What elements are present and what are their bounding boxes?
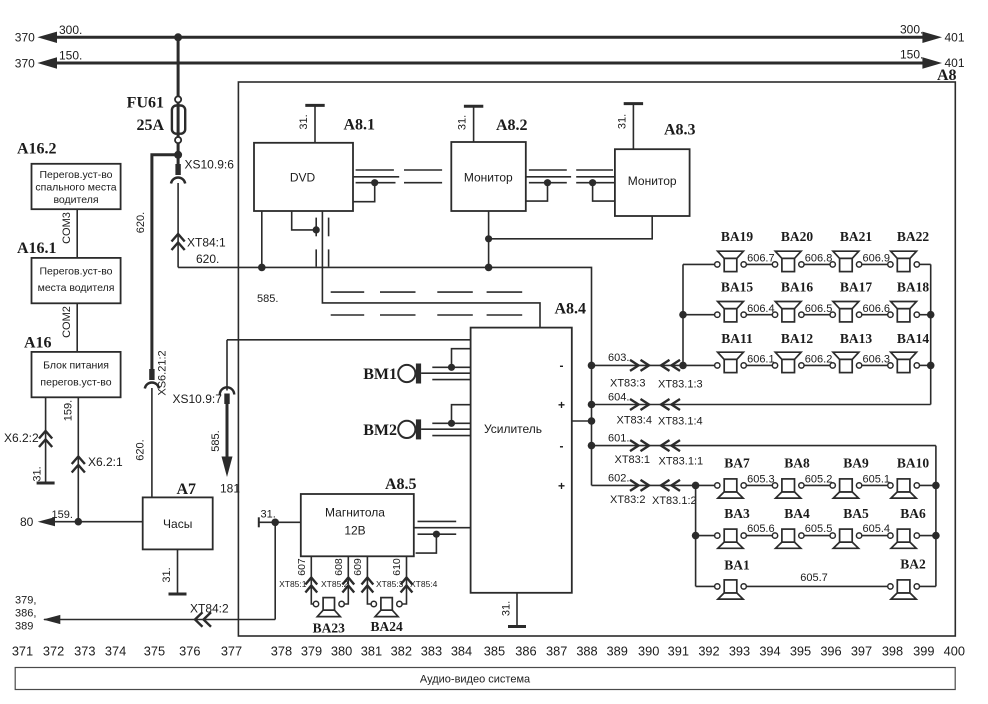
connector XT83:4 <box>630 399 639 410</box>
svg-text:376: 376 <box>179 644 200 659</box>
wire DVD bottom leg to 620 line <box>261 211 263 268</box>
wire 31 stub into A8.5 <box>259 517 301 527</box>
wire 610 (A8.5 to BA24 right) <box>402 556 406 604</box>
speaker BA12 <box>772 352 804 372</box>
speaker BA1 <box>715 580 747 599</box>
connector XT85:3 (double chevron up) <box>362 578 374 593</box>
svg-text:620.: 620. <box>135 439 147 460</box>
wire 585 arrow down to node 181 <box>222 403 233 477</box>
junction lower-right bus / row BA7 <box>932 482 940 490</box>
svg-text:BA23: BA23 <box>313 621 346 636</box>
svg-text:X6.2:2: X6.2:2 <box>4 431 39 445</box>
block A8.3 monitor <box>615 149 690 216</box>
svg-text:BA21: BA21 <box>840 229 873 244</box>
speaker BA23 <box>313 598 344 617</box>
svg-text:DVD: DVD <box>290 171 316 185</box>
junction bus/line 601 <box>588 442 596 450</box>
junction 620/DVD leg <box>258 264 266 272</box>
svg-text:31.: 31. <box>298 114 310 129</box>
svg-text:386: 386 <box>515 644 536 659</box>
wire A16 left leg to ground <box>45 397 47 483</box>
wire row BA19-BA22 <box>683 263 931 265</box>
wire upper-left speaker bus <box>682 264 684 365</box>
junction bus/amp stub <box>588 417 596 425</box>
ground (A7) <box>169 593 187 596</box>
svg-text:Аудио-видео система: Аудио-видео система <box>420 674 531 686</box>
svg-text:BA11: BA11 <box>721 331 753 346</box>
svg-text:31.: 31. <box>161 567 173 582</box>
svg-text:394: 394 <box>759 644 780 659</box>
coordinate scale 371-400 <box>12 644 965 659</box>
svg-text:620.: 620. <box>135 212 147 233</box>
speaker BA22 <box>888 251 920 271</box>
svg-text:XT85:4: XT85:4 <box>410 579 438 589</box>
svg-text:392: 392 <box>698 644 719 659</box>
wire 609 (A8.5 to BA24 left) <box>367 556 371 604</box>
wire upper-right speaker bus <box>930 264 932 404</box>
svg-text:A8.3: A8.3 <box>664 122 696 139</box>
wires BM2 to amplifier <box>421 405 471 436</box>
svg-text:391: 391 <box>668 644 689 659</box>
svg-text:BA5: BA5 <box>843 506 869 521</box>
pin polarity marks on amplifier <box>558 359 565 494</box>
connector XT83.1:3 <box>661 360 670 371</box>
svg-text:BA4: BA4 <box>784 506 810 521</box>
wire 159 to node 80 <box>38 517 143 526</box>
svg-text:606.7: 606.7 <box>747 253 775 265</box>
svg-text:Монитор: Монитор <box>628 174 677 188</box>
svg-text:31.: 31. <box>501 601 513 616</box>
svg-text:373: 373 <box>74 644 95 659</box>
shielded cable A8.2 to A8.3 (segment 1) <box>526 170 571 201</box>
svg-text:379,: 379, <box>15 595 36 607</box>
svg-text:COM3: COM3 <box>61 212 73 244</box>
junction bus/line 604 <box>588 401 596 409</box>
svg-text:31.: 31. <box>32 466 44 481</box>
svg-text:-: - <box>560 439 564 453</box>
svg-text:-: - <box>560 359 564 373</box>
svg-text:XT85:3: XT85:3 <box>376 579 404 589</box>
junction upper-right bus / row BA11 <box>927 362 935 370</box>
junction lower-left bus / row BA3 <box>692 532 700 540</box>
junction on bus 300 at fuse drop <box>174 33 182 41</box>
svg-text:BA18: BA18 <box>897 280 930 295</box>
svg-text:A8.4: A8.4 <box>555 301 587 318</box>
block A16 (power supply of intercom) <box>32 352 121 397</box>
svg-text:607: 607 <box>296 558 308 576</box>
connector XT85:4 (double chevron up) <box>401 578 413 593</box>
speaker BA16 <box>772 302 804 322</box>
junction 603 / upper-left speaker bus <box>679 362 687 370</box>
svg-text:389: 389 <box>15 621 33 633</box>
ground (above A8.2) with label 31. <box>457 106 484 142</box>
svg-text:181: 181 <box>220 482 240 496</box>
wire bus 300 (net 370-401 top) <box>37 32 942 43</box>
block A8.5 radio 12V <box>301 494 414 556</box>
speaker BA4 <box>772 529 804 548</box>
connector XT85:1 (double chevron up) <box>305 578 317 593</box>
svg-text:A16: A16 <box>24 335 52 352</box>
shielded cable DVD to A8.2 (segment 1) <box>353 170 399 202</box>
svg-text:XT85:2: XT85:2 <box>321 579 349 589</box>
shielded cable A8.5 to amplifier <box>414 521 471 553</box>
block A7 (clock) <box>143 497 213 549</box>
svg-text:378: 378 <box>271 644 292 659</box>
svg-text:605.3: 605.3 <box>747 474 775 486</box>
svg-text:620.: 620. <box>196 252 219 266</box>
svg-text:31.: 31. <box>261 509 276 521</box>
svg-text:+: + <box>558 479 565 493</box>
wire 608 (A8.5 to BA23 right) <box>345 556 349 604</box>
speaker BA2 <box>888 580 920 599</box>
speaker BA15 <box>715 302 747 322</box>
svg-text:XT83.1:2: XT83.1:2 <box>652 495 697 507</box>
block A16.1 (intercom driver place) <box>32 258 121 303</box>
svg-text:605.7: 605.7 <box>800 572 828 584</box>
speaker BA18 <box>888 302 920 322</box>
svg-text:XT83.1:1: XT83.1:1 <box>659 456 704 468</box>
connector XS10.9:7 (socket symbol) <box>220 340 234 404</box>
speaker BA24 <box>371 598 402 617</box>
svg-text:384: 384 <box>451 644 472 659</box>
svg-text:380: 380 <box>331 644 352 659</box>
svg-text:382: 382 <box>391 644 412 659</box>
speaker BA6 <box>888 529 920 548</box>
wire 585 line to amplifier <box>227 339 471 341</box>
svg-text:XT85:1: XT85:1 <box>279 579 307 589</box>
svg-text:381: 381 <box>361 644 382 659</box>
svg-text:BA16: BA16 <box>781 280 814 295</box>
svg-text:603.: 603. <box>608 352 629 364</box>
connector XT84:1 (double chevron up) <box>172 234 185 250</box>
svg-text:A16.1: A16.1 <box>17 240 57 257</box>
junction bus/line 603 <box>588 362 596 370</box>
svg-text:BM2: BM2 <box>363 422 397 439</box>
junction 620/A8.2 leg <box>485 264 493 272</box>
wire A16 right leg (net 159) <box>77 397 79 521</box>
svg-text:159.: 159. <box>52 509 73 521</box>
svg-text:XS10.9:6: XS10.9:6 <box>185 158 235 172</box>
svg-text:BA12: BA12 <box>781 331 814 346</box>
speaker BA21 <box>830 251 862 271</box>
wire A8.2 bottom leg <box>488 211 490 267</box>
svg-text:606.2: 606.2 <box>805 354 833 366</box>
junction upper-left bus / row BA15 <box>679 311 687 319</box>
wire COM2 link <box>76 303 78 352</box>
svg-text:BA10: BA10 <box>897 456 930 471</box>
wire row BA7-BA10 <box>715 484 936 486</box>
wire below fuse <box>177 143 180 165</box>
svg-text:605.5: 605.5 <box>805 523 833 535</box>
connector XT83.1:4 <box>661 399 670 410</box>
svg-text:BM1: BM1 <box>363 366 397 383</box>
svg-text:387: 387 <box>546 644 567 659</box>
svg-text:BA15: BA15 <box>721 280 754 295</box>
shielded pair DVD-amp (dashed rows) <box>331 292 523 315</box>
wire bus 150 (net 370-401 lower) <box>37 57 942 68</box>
connector XT83.1:1 <box>661 440 670 451</box>
wire output bus vertical <box>591 365 593 485</box>
speaker BA19 <box>715 251 747 271</box>
wire 620 branch to left (to clock A7) <box>152 155 178 370</box>
speaker BA17 <box>830 302 862 322</box>
junction upper-right bus / row BA15 <box>927 311 935 319</box>
junction 602 / lower-left speaker bus <box>692 482 700 490</box>
connector X6.2:1 (double chevron up) <box>72 457 85 473</box>
svg-text:XT83.1:4: XT83.1:4 <box>658 416 703 428</box>
speaker BA5 <box>830 529 862 548</box>
connector XT85:2 (double chevron up) <box>342 578 354 593</box>
wire XT84:2 run (nets 379,386,389) <box>43 522 275 624</box>
wire 607 (A8.5 to BA23 left) <box>311 556 313 604</box>
wire A8.2 to A8.3 bottom link <box>489 216 653 239</box>
wire 604 (upper group return) <box>592 404 931 406</box>
svg-text:Перегов.уст-во: Перегов.уст-во <box>40 169 113 181</box>
speaker BA20 <box>772 251 804 271</box>
node labels 379,386,389 <box>15 595 36 633</box>
wire A7 bottom leg <box>177 549 179 594</box>
svg-text:379: 379 <box>301 644 322 659</box>
svg-text:606.9: 606.9 <box>862 253 890 265</box>
wire DVD bottom shield loop <box>292 211 320 234</box>
connector XT83:3 <box>630 360 639 371</box>
svg-text:BA17: BA17 <box>840 280 873 295</box>
svg-text:31.: 31. <box>617 114 629 129</box>
svg-text:BA13: BA13 <box>840 331 873 346</box>
svg-text:604.: 604. <box>608 392 629 404</box>
svg-text:399: 399 <box>913 644 934 659</box>
svg-text:Блок питания: Блок питания <box>43 359 109 371</box>
connector XT84:2 (double chevron left) <box>195 612 211 626</box>
svg-text:602.: 602. <box>608 473 629 485</box>
svg-text:BA14: BA14 <box>897 331 930 346</box>
junction A8.2 leg / link <box>485 235 492 242</box>
svg-text:A7: A7 <box>177 481 197 498</box>
wire 620 power line (horizontal) <box>178 267 591 365</box>
speaker BA10 <box>888 479 920 498</box>
ground (amplifier) <box>508 625 526 628</box>
microphone BM2 <box>398 419 421 439</box>
connector XT83:1 <box>630 440 639 451</box>
svg-text:585.: 585. <box>257 293 278 305</box>
speaker BA7 <box>715 479 747 498</box>
svg-text:395: 395 <box>790 644 811 659</box>
svg-text:BA24: BA24 <box>370 619 403 634</box>
svg-text:371: 371 <box>12 644 33 659</box>
wire amplifier ground leg <box>516 593 518 627</box>
speaker BA3 <box>715 529 747 548</box>
svg-text:383: 383 <box>421 644 442 659</box>
svg-text:BA9: BA9 <box>843 456 869 471</box>
svg-text:водителя: водителя <box>53 194 98 206</box>
wire row BA15-BA18 <box>683 314 931 316</box>
svg-text:150.: 150. <box>900 48 923 62</box>
fuse FU61 25A <box>172 96 185 143</box>
svg-text:BA20: BA20 <box>781 229 814 244</box>
svg-text:605.1: 605.1 <box>862 474 890 486</box>
svg-text:396: 396 <box>820 644 841 659</box>
svg-text:400: 400 <box>944 644 965 659</box>
connector XT83:2 <box>630 480 639 491</box>
wire lower-right speaker bus <box>935 446 937 587</box>
svg-text:300.: 300. <box>59 23 82 37</box>
wire 603 (speaker row BA11-BA14 feed) <box>592 364 715 366</box>
svg-text:585.: 585. <box>210 430 222 451</box>
svg-text:605.6: 605.6 <box>747 523 775 535</box>
ground (A16 left leg) <box>37 482 55 485</box>
block A16.2 (intercom sleeping place) <box>32 164 121 209</box>
wire DVD signal to amplifier (solid) <box>322 211 540 328</box>
svg-text:A8.5: A8.5 <box>385 476 417 493</box>
svg-text:159.: 159. <box>63 400 75 421</box>
svg-text:398: 398 <box>882 644 903 659</box>
shielded cable A8.2 to A8.3 (segment 2) <box>576 170 615 201</box>
svg-text:XT83.1:3: XT83.1:3 <box>658 379 703 391</box>
svg-text:605.2: 605.2 <box>805 474 833 486</box>
title bar (audio-video system) <box>15 668 955 690</box>
svg-text:FU61: FU61 <box>127 95 164 112</box>
speaker BA8 <box>772 479 804 498</box>
svg-text:X6.2:1: X6.2:1 <box>88 455 123 469</box>
svg-text:12В: 12В <box>344 524 365 538</box>
svg-text:A8.2: A8.2 <box>496 117 528 134</box>
svg-text:606.8: 606.8 <box>805 253 833 265</box>
svg-text:A8.1: A8.1 <box>344 117 376 134</box>
wire lower-left speaker bus <box>695 485 697 586</box>
wires BM1 to amplifier <box>421 349 471 380</box>
svg-text:XT83:1: XT83:1 <box>615 454 650 466</box>
speaker BA9 <box>830 479 862 498</box>
wire 602 (speaker row BA7-BA10 feed) <box>592 484 715 486</box>
shield dashes below DVD (pair of dashed verticals) <box>316 218 328 267</box>
block A8 (audio-video system boundary) <box>238 82 955 636</box>
speaker BA14 <box>888 352 920 372</box>
svg-text:606.4: 606.4 <box>747 303 775 315</box>
wire row BA11-BA14 <box>715 364 931 366</box>
svg-text:XT84:1: XT84:1 <box>187 236 226 250</box>
svg-text:Усилитель: Усилитель <box>484 422 542 436</box>
wire into clock A7 <box>151 388 153 497</box>
connector XS6.21:2 (pin symbol) <box>145 369 159 389</box>
svg-text:BA22: BA22 <box>897 229 930 244</box>
svg-text:Перегов.уст-во: Перегов.уст-во <box>40 265 113 277</box>
svg-text:393: 393 <box>729 644 750 659</box>
svg-text:386,: 386, <box>15 608 36 620</box>
svg-text:25A: 25A <box>136 117 164 134</box>
svg-text:места водителя: места водителя <box>38 282 115 294</box>
svg-text:+: + <box>558 398 565 412</box>
svg-text:XS10.9:7: XS10.9:7 <box>173 392 223 406</box>
svg-text:A16.2: A16.2 <box>17 141 57 158</box>
svg-text:BA7: BA7 <box>724 456 750 471</box>
ground (above DVD) with label 31. <box>298 105 325 142</box>
svg-text:390: 390 <box>638 644 659 659</box>
junction lower-right bus / row BA3 <box>932 532 940 540</box>
svg-text:606.5: 606.5 <box>805 303 833 315</box>
svg-text:377: 377 <box>221 644 242 659</box>
svg-text:спального места: спального места <box>35 181 116 193</box>
wire 601 (lower group return) <box>592 445 936 447</box>
block A8.2 monitor <box>451 142 526 211</box>
svg-text:31.: 31. <box>457 115 469 130</box>
svg-text:401: 401 <box>945 31 965 45</box>
svg-text:BA2: BA2 <box>900 557 926 572</box>
svg-text:XS6.21:2: XS6.21:2 <box>157 350 169 395</box>
svg-text:606.3: 606.3 <box>862 354 890 366</box>
speaker BA11 <box>715 352 747 372</box>
svg-text:Монитор: Монитор <box>464 171 513 185</box>
svg-text:609: 609 <box>352 558 364 576</box>
svg-text:610: 610 <box>391 558 403 576</box>
speaker BA13 <box>830 352 862 372</box>
svg-text:389: 389 <box>607 644 628 659</box>
svg-text:608: 608 <box>333 558 345 576</box>
connector XS10.9:6 (pin symbol) <box>171 164 185 184</box>
svg-text:388: 388 <box>576 644 597 659</box>
svg-text:A8: A8 <box>937 67 957 84</box>
connector X6.2:2 (double chevron up) <box>39 431 52 447</box>
svg-text:BA1: BA1 <box>724 558 750 573</box>
svg-text:BA8: BA8 <box>784 456 810 471</box>
wire amplifier output stub to bus <box>572 420 592 422</box>
svg-text:300.: 300. <box>900 23 923 37</box>
wire XT84 branch down <box>177 183 179 267</box>
svg-text:перегов.уст-во: перегов.уст-во <box>40 377 111 389</box>
svg-text:370: 370 <box>15 56 35 70</box>
wire fuse drop vertical <box>177 37 180 96</box>
svg-text:XT83:3: XT83:3 <box>610 378 645 390</box>
junction at 620 branch <box>174 151 182 159</box>
svg-text:372: 372 <box>43 644 64 659</box>
svg-text:BA19: BA19 <box>721 229 754 244</box>
svg-text:Магнитола: Магнитола <box>325 506 385 520</box>
svg-text:605.4: 605.4 <box>862 523 890 535</box>
microphone BM1 <box>398 364 421 384</box>
svg-text:374: 374 <box>105 644 126 659</box>
svg-text:COM2: COM2 <box>61 306 73 338</box>
wire row BA1-BA2 <box>696 585 936 587</box>
svg-text:606.1: 606.1 <box>747 354 775 366</box>
svg-text:397: 397 <box>851 644 872 659</box>
svg-text:XT84:2: XT84:2 <box>190 602 229 616</box>
ground (above A8.3) with label 31. <box>617 104 644 150</box>
svg-text:385: 385 <box>484 644 505 659</box>
svg-text:606.6: 606.6 <box>862 303 890 315</box>
svg-text:BA3: BA3 <box>724 506 750 521</box>
svg-text:370: 370 <box>15 31 35 45</box>
junction 159/X6.2:1 <box>75 518 83 526</box>
svg-text:150.: 150. <box>59 49 82 63</box>
svg-text:XT83:2: XT83:2 <box>610 494 645 506</box>
svg-text:BA6: BA6 <box>900 506 926 521</box>
svg-text:Часы: Часы <box>163 517 192 531</box>
svg-text:375: 375 <box>144 644 165 659</box>
shielded cable DVD to A8.2 (segment 2) <box>404 170 442 183</box>
block A8.1 DVD <box>254 143 353 211</box>
svg-text:601.: 601. <box>608 433 629 445</box>
wire COM3 link <box>76 209 78 258</box>
block A8.4 amplifier <box>471 328 572 593</box>
wire row BA3-BA6 <box>696 535 936 537</box>
svg-text:80: 80 <box>20 515 34 529</box>
connector XT83.1:2 <box>661 480 670 491</box>
svg-text:XT83:4: XT83:4 <box>617 415 652 427</box>
